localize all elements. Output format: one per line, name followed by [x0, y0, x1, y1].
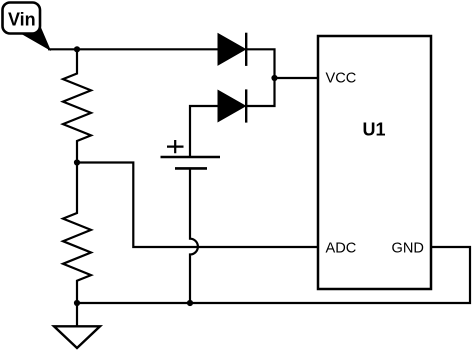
node junction R2/ground bus — [74, 300, 80, 306]
node Vin flag tail — [19, 27, 50, 50]
battery V1 short plate — [175, 167, 207, 170]
svg-text:ADC: ADC — [326, 240, 357, 256]
diode D1 anode wire is part of top wire; diode D1 triangle — [218, 34, 246, 65]
svg-text:Vin: Vin — [8, 10, 36, 30]
wire D2 cathode to VCC node — [246, 78, 274, 106]
wire battery negative down with hop over ADC wire — [190, 168, 198, 303]
diode D2 triangle — [218, 90, 246, 121]
wire divider tap to ADC — [77, 163, 317, 248]
wire Vin to diode D1 anode — [48, 48, 219, 50]
resistor R1 — [63, 49, 91, 162]
ground — [54, 326, 100, 348]
op-amp U1 box — [318, 36, 431, 289]
node junction Vin/R1 — [74, 46, 80, 52]
resistor R2 — [63, 163, 91, 304]
diode D2 anode wire — [190, 106, 218, 156]
wire R2 bottom to ground symbol — [76, 303, 78, 327]
diode D1 cathode bar — [245, 33, 247, 66]
node junction battery/ground bus — [187, 300, 193, 306]
wire VCC node to U1 VCC pin — [275, 77, 318, 79]
battery V1 plus sign — [167, 140, 184, 153]
svg-text:VCC: VCC — [326, 71, 357, 87]
svg-text:U1: U1 — [363, 120, 386, 140]
svg-text:GND: GND — [392, 240, 424, 256]
node junction diode cathodes — [271, 75, 277, 81]
wire D1 cathode to VCC node — [246, 49, 274, 78]
wire ground bus — [77, 247, 470, 303]
node Vin flag box — [3, 3, 41, 34]
node junction R1/R2/ADC branch — [74, 159, 80, 165]
diode D2 cathode bar — [245, 89, 247, 122]
battery V1 long plate — [161, 156, 221, 158]
